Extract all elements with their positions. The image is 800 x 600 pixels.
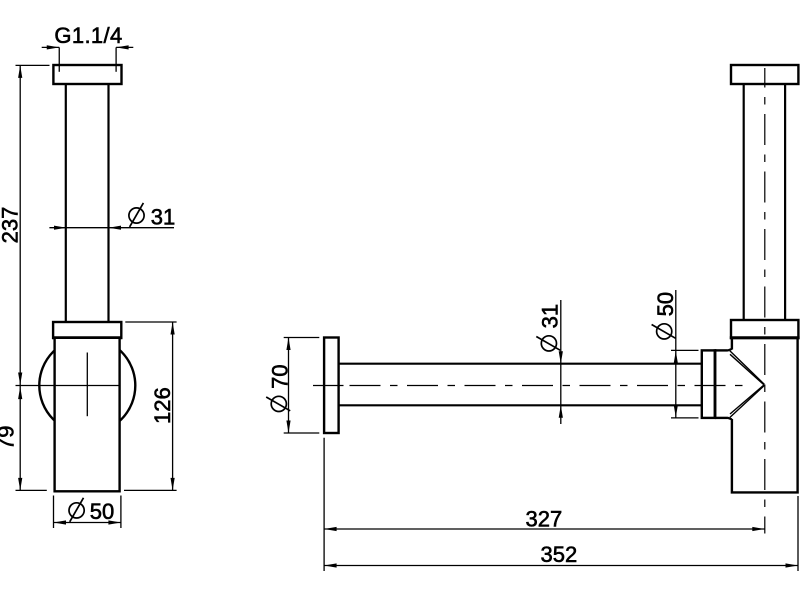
cone inner bottom edge (730, 385, 764, 414)
horizontal pipe bottom wall (339, 404, 702, 406)
svg-text:31: 31 (538, 304, 563, 328)
cone top chamfer (727, 349, 732, 351)
inlet flange (53, 65, 121, 84)
body cap thick rim side view (730, 336, 800, 339)
dimension diameter 50 front (54, 496, 121, 529)
trap body cup (55, 338, 120, 492)
dimension 352 (324, 496, 798, 571)
center mark horizontal / extension line (16, 385, 121, 387)
svg-text:79: 79 (0, 426, 19, 450)
inlet pipe right wall (107, 84, 109, 322)
wall flange (324, 338, 339, 434)
horizontal centerline flange segment (313, 385, 344, 387)
trap body ring circle (39, 338, 135, 434)
dimension 79 (0, 386, 47, 491)
svg-text:50: 50 (90, 499, 114, 524)
outlet pipe right wall (784, 84, 786, 320)
compression nut thick rim (714, 349, 717, 419)
svg-text:31: 31 (151, 205, 175, 230)
vertical centerline (764, 68, 766, 534)
cone inner top edge (730, 354, 764, 385)
dimension diameter 31 front (49, 203, 175, 230)
dimension diameter 31 side (536, 300, 563, 424)
cone outer bottom edge (730, 385, 765, 417)
body cup side view (731, 338, 798, 494)
trap body cap (53, 322, 121, 338)
dimension diameter 70 (266, 338, 319, 434)
svg-text:352: 352 (541, 542, 578, 567)
outlet pipe left wall (743, 84, 745, 320)
dimension G1.1/4 (42, 23, 134, 72)
dimension diameter 50 side (652, 290, 699, 418)
cone outer top edge (730, 351, 765, 385)
dimension 126 (124, 322, 177, 490)
svg-text:50: 50 (653, 292, 678, 316)
dimension 327 (324, 438, 765, 571)
tee socket top edge (715, 349, 728, 351)
svg-text:G1.1/4: G1.1/4 (54, 23, 122, 48)
dimension 237 (0, 65, 49, 385)
body cap side view (731, 320, 798, 338)
outlet flange top right (731, 65, 798, 84)
svg-text:327: 327 (526, 507, 563, 532)
tee socket bottom edge (715, 417, 728, 419)
inlet pipe left wall (65, 84, 67, 322)
svg-text:237: 237 (0, 207, 22, 244)
svg-text:70: 70 (267, 364, 292, 388)
horizontal centerline (350, 385, 744, 387)
horizontal pipe top wall (339, 363, 702, 365)
compression nut (702, 350, 715, 418)
trap body cap thick rim (52, 336, 122, 339)
cone bottom chamfer (727, 418, 732, 420)
center mark vertical (86, 353, 88, 417)
svg-text:126: 126 (150, 387, 175, 424)
